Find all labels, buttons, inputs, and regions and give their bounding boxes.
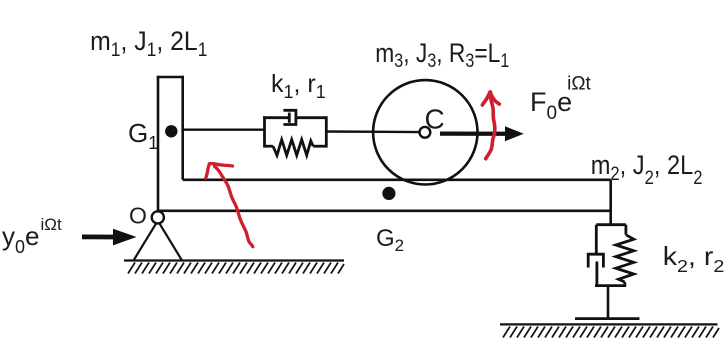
spring k2: zigzag bbox=[616, 235, 634, 282]
damper r2: rod from top bbox=[595, 225, 598, 255]
spring k1: left stub bbox=[265, 145, 274, 148]
svg-text:k2, r2: k2, r2 bbox=[663, 241, 725, 277]
svg-text:m3, J3, R3=L1: m3, J3, R3=L1 bbox=[375, 38, 509, 71]
ground hatching right bbox=[503, 327, 719, 338]
spring-damper k2 r2: box bottom edge bbox=[595, 284, 626, 287]
spring-damper k1 r1: left edge bbox=[263, 116, 266, 147]
support triangle right leg bbox=[159, 223, 182, 261]
red annotation arrow pointing at joint bbox=[206, 164, 253, 247]
force arrow F0 bbox=[440, 126, 524, 141]
damper r1: piston rod bbox=[263, 116, 289, 119]
wire: link from bar to spring-damper k1 bbox=[184, 128, 265, 130]
svg-text:G2: G2 bbox=[376, 225, 404, 255]
damper r2: cylinder cup bbox=[588, 254, 603, 267]
wire: k1 box to disk center C bbox=[326, 130, 420, 133]
svg-text:m2, J2, 2L2: m2, J2, 2L2 bbox=[591, 151, 703, 189]
ground hatching left bbox=[128, 263, 344, 274]
support triangle left leg bbox=[134, 223, 157, 261]
wire: rod from k2 to base plate bbox=[607, 286, 610, 319]
disk m3 bbox=[373, 80, 477, 184]
svg-text:m1, J1, 2L1: m1, J1, 2L1 bbox=[90, 27, 207, 60]
spring-damper k2 r2: box top edge bbox=[596, 223, 626, 226]
damper r1: cylinder cup bbox=[283, 110, 296, 124]
spring k2: top stub bbox=[625, 225, 628, 235]
spring k2: bottom stub bbox=[623, 282, 626, 286]
svg-text:O: O bbox=[129, 203, 147, 229]
vertical bar link m1: top edge bbox=[157, 76, 184, 79]
svg-text:k1, r1: k1, r1 bbox=[271, 70, 326, 102]
red rotation arrow near disk bbox=[482, 92, 499, 159]
ground line right bbox=[500, 323, 718, 325]
beam m2: right end edge bbox=[609, 180, 612, 225]
input arrow y0 bbox=[82, 229, 137, 246]
spring k1: zigzag bbox=[273, 140, 313, 156]
wire: damper to right edge of k1 box bbox=[296, 116, 326, 119]
base plate bbox=[575, 317, 640, 320]
svg-text:F0eiΩt: F0eiΩt bbox=[530, 74, 592, 125]
beam m2: top edge bbox=[183, 179, 611, 182]
spring k1: right stub bbox=[313, 145, 326, 148]
spring-damper k1 r1: right edge bbox=[325, 116, 328, 147]
pin C small circle bbox=[420, 127, 431, 138]
damper r1: piston plate bbox=[288, 113, 291, 123]
vertical bar link m1: right edge bbox=[181, 76, 184, 180]
pivot circle O bbox=[152, 211, 164, 223]
ground line left bbox=[124, 259, 344, 261]
vertical bar link m1: left edge bbox=[157, 76, 160, 211]
svg-text:G1: G1 bbox=[128, 118, 158, 153]
center of mass dot G2 bbox=[382, 187, 395, 200]
svg-text:y0eiΩt: y0eiΩt bbox=[2, 215, 62, 257]
damper r2: piston rod bbox=[596, 262, 599, 286]
center of mass dot G1 bbox=[165, 125, 177, 137]
beam m2: bottom edge bbox=[158, 210, 611, 213]
